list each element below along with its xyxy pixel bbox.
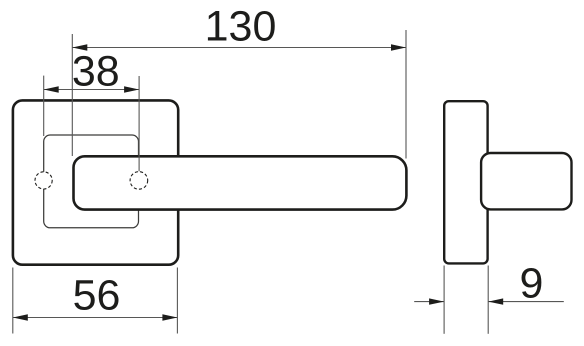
extension line 9 left bbox=[443, 266, 445, 334]
extension line 38 right (through lever) bbox=[138, 76, 140, 171]
svg-text:9: 9 bbox=[520, 260, 544, 308]
lever side view bbox=[481, 153, 571, 209]
screw hole right bbox=[130, 172, 148, 190]
extension line 56 left bbox=[12, 268, 14, 334]
arrow 38 right bbox=[124, 86, 139, 92]
rose side view (right) bbox=[444, 101, 487, 263]
arrow 56 left bbox=[13, 314, 28, 320]
arrow 9 right (pointing left) bbox=[488, 298, 503, 304]
dimension 9 line left segment bbox=[414, 301, 444, 303]
dimension 38 line bbox=[44, 89, 139, 91]
inner square plate bbox=[44, 135, 139, 228]
dimension 56 line bbox=[13, 317, 178, 319]
svg-text:56: 56 bbox=[73, 272, 121, 320]
arrow 130 right bbox=[391, 44, 406, 50]
extension line 130 right bbox=[405, 30, 407, 159]
extension line 38 left bbox=[43, 76, 45, 136]
rose outer square (front view) bbox=[13, 100, 178, 264]
dimension 130 line bbox=[72, 47, 406, 49]
arrow 130 left bbox=[72, 44, 87, 50]
dimension 9 line right segment bbox=[488, 301, 564, 303]
arrow 38 left bbox=[44, 86, 59, 92]
svg-text:38: 38 bbox=[72, 48, 120, 96]
screw hole left bbox=[35, 172, 52, 189]
svg-text:130: 130 bbox=[205, 3, 277, 51]
extension line 130 left bbox=[71, 34, 73, 156]
extension line 56 right bbox=[176, 268, 178, 334]
arrow 56 right bbox=[162, 314, 177, 320]
arrow 9 left (pointing right) bbox=[429, 298, 444, 304]
extension line 9 right bbox=[487, 266, 489, 334]
lever handle (front view) bbox=[74, 156, 407, 209]
